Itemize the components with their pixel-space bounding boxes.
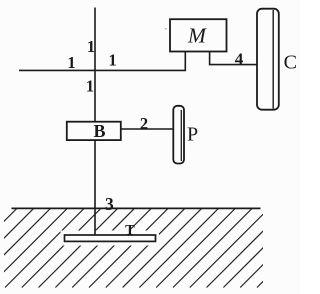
- scan speck: [165, 28, 167, 29]
- svg-text:2: 2: [140, 114, 148, 133]
- white clearance around table T: [61, 231, 160, 246]
- svg-text:1: 1: [87, 37, 95, 56]
- svg-text:1: 1: [67, 53, 75, 72]
- svg-text:3: 3: [105, 194, 114, 214]
- svg-text:1: 1: [86, 76, 94, 95]
- wire 2: B to P: [121, 128, 174, 130]
- table/base T bar: [65, 235, 156, 241]
- wire: M left support: [184, 52, 186, 72]
- svg-text:4: 4: [235, 50, 244, 69]
- cylinder C: [257, 9, 279, 110]
- wire 4: M to C: [210, 52, 258, 65]
- motor block M: [170, 19, 227, 51]
- block B: [67, 122, 121, 140]
- svg-text:P: P: [187, 123, 198, 145]
- svg-text:M: M: [187, 24, 207, 48]
- svg-text:B: B: [93, 121, 105, 141]
- ground hatching: [0, 209, 320, 288]
- wire: horizontal beam: [19, 69, 186, 71]
- cylinder P: [173, 106, 184, 164]
- svg-text:C: C: [284, 51, 297, 73]
- svg-text:T: T: [125, 222, 135, 238]
- svg-text:1: 1: [108, 51, 116, 70]
- wire: vertical shaft (lower segment): [94, 140, 96, 235]
- wire: vertical shaft (upper segment): [94, 8, 96, 123]
- ground surface line: [12, 207, 261, 209]
